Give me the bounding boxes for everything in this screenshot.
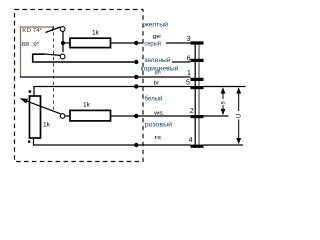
- terminal bar pin 5: [191, 86, 204, 89]
- wire blade2 pivot bracket to wire row 2: [33, 54, 134, 62]
- svg-text:1k: 1k: [43, 121, 51, 128]
- svg-text:U: U: [237, 114, 243, 118]
- svg-text:2: 2: [190, 108, 194, 115]
- switch blade 1: [46, 27, 61, 33]
- potentiometer wiper contact circle: [60, 114, 65, 119]
- svg-text:3: 3: [187, 36, 191, 43]
- wire row 5 extension: [204, 115, 229, 117]
- svg-text:1k: 1k: [83, 101, 91, 108]
- terminal bar pin 1: [191, 78, 204, 81]
- wire row 4 from pot top: [34, 87, 143, 97]
- terminal bar pin 2: [191, 115, 204, 118]
- svg-text:розовый: розовый: [145, 121, 173, 128]
- svg-text:серый: серый: [144, 41, 161, 48]
- terminal bar pin 3: [191, 41, 204, 44]
- thermo-switch box KD: [21, 27, 53, 77]
- switch contact circle top: [60, 27, 65, 32]
- junction dot row 3: [134, 75, 138, 79]
- junction dot row 4: [134, 84, 138, 88]
- wire row 5 right segment: [143, 115, 191, 117]
- wire row 2 right segment: [172, 61, 191, 63]
- wire row 6 from pot bottom: [34, 138, 144, 145]
- svg-text:1k: 1k: [92, 30, 100, 37]
- pot bottom mark square: [28, 141, 30, 143]
- svg-text:1: 1: [187, 70, 191, 77]
- wire row 3 right segment: [143, 76, 191, 78]
- svg-text:5: 5: [186, 80, 190, 87]
- wire row 3 (box bottom): [20, 76, 143, 78]
- junction dot row 6: [134, 143, 138, 147]
- mechanical link dashed line: [53, 26, 55, 110]
- potentiometer wiper arrow: [24, 100, 61, 114]
- dimension arrow U: [236, 87, 241, 144]
- potentiometer R2 1k (vertical): [30, 96, 41, 138]
- resistor R1 1k (top): [70, 38, 111, 47]
- component dashed boundary: [15, 10, 144, 162]
- wire row 6 right segment: [143, 144, 191, 146]
- wire wiper to resistor R3: [65, 115, 70, 117]
- junction dot switch common: [61, 41, 65, 45]
- resistor R3 1k (horizontal): [70, 110, 111, 121]
- terminal bar pin 6: [191, 59, 204, 62]
- potentiometer arrow mark square top: [29, 90, 32, 93]
- connector strip vertical lines: [194, 41, 196, 148]
- terminal bar pin 4: [191, 145, 204, 148]
- svg-text:желтый: желтый: [144, 22, 169, 29]
- wire row 6 extension: [204, 144, 244, 146]
- dimension arrow s: [221, 87, 226, 115]
- wire row 5 to boundary: [111, 115, 144, 117]
- svg-text:rs: rs: [155, 135, 162, 141]
- svg-text:s: s: [220, 101, 227, 105]
- wire row 4 extension: [204, 86, 246, 88]
- junction dot row 2: [134, 60, 138, 64]
- wire row 1 to boundary: [111, 42, 144, 44]
- svg-text:gn: gn: [155, 70, 161, 76]
- svg-text:белый: белый: [145, 96, 163, 103]
- svg-text:4: 4: [189, 137, 193, 144]
- svg-text:зеленый: зеленый: [144, 57, 171, 64]
- junction dot row 5: [134, 114, 138, 118]
- wire row 4 right segment: [143, 86, 191, 88]
- svg-text:6: 6: [187, 55, 191, 62]
- wire row 1 right segment: [166, 42, 191, 44]
- junction dot row 1: [134, 41, 138, 45]
- wire switch common vertical: [62, 31, 64, 52]
- svg-text:88 ,9°: 88 ,9°: [21, 42, 39, 48]
- svg-text:ge: ge: [153, 34, 162, 40]
- wire row 1 left: [63, 42, 70, 44]
- switch blade 2: [43, 54, 61, 56]
- svg-text:br: br: [154, 80, 160, 86]
- switch contact circle bottom: [60, 54, 65, 59]
- svg-text:KD 74°: KD 74°: [22, 28, 42, 34]
